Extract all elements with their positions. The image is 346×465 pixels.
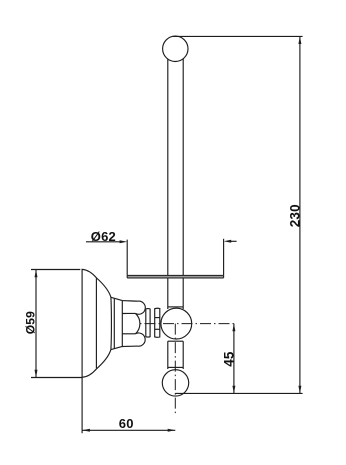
collar nut facet lower bbox=[155, 328, 160, 330]
dimension 60 line bbox=[82, 429, 175, 431]
wall flange bell dome bbox=[82, 269, 111, 377]
tulip neck top edge bbox=[111, 297, 138, 301]
top ball finial bbox=[163, 36, 188, 61]
arrow 60 left bbox=[82, 429, 90, 432]
arrow 230 top bbox=[298, 36, 301, 44]
dimension 062 tail right bbox=[231, 240, 237, 242]
dimension 062 leader left bbox=[86, 241, 121, 243]
dimension 062 extension right bbox=[223, 239, 225, 275]
dimension line 45 bbox=[233, 324, 235, 394]
dimension 059 extension bottom bbox=[31, 377, 82, 379]
rod seam above ball joint bbox=[168, 306, 183, 308]
centerline vertical below ball joint bbox=[174, 324, 176, 415]
svg-text:230: 230 bbox=[287, 204, 302, 227]
extension line top (230) bbox=[173, 35, 303, 37]
collar nut facet upper bbox=[155, 317, 160, 319]
tulip notch lower bbox=[122, 333, 135, 335]
arrow 60 right bbox=[168, 429, 176, 432]
arrow 45 top bbox=[232, 324, 235, 332]
arrow 059 bottom bbox=[35, 370, 38, 378]
arrow 45 bottom bbox=[232, 386, 235, 394]
svg-text:45: 45 bbox=[222, 351, 237, 367]
svg-text:Ø62: Ø62 bbox=[91, 229, 116, 244]
dimension line 230 bbox=[299, 36, 301, 393]
rod seam below ball joint bbox=[168, 340, 183, 342]
svg-text:60: 60 bbox=[119, 416, 134, 431]
rod end seam bbox=[168, 366, 183, 368]
tulip scallop arc top bbox=[135, 301, 145, 314]
flange inner rim line bbox=[95, 278, 97, 368]
dimension 062 extension left bbox=[126, 240, 128, 276]
dimension 60 extension left bbox=[81, 377, 83, 433]
flange mouth rim line bbox=[113, 299, 115, 349]
arrow 059 top bbox=[35, 270, 38, 278]
extension line bottom (230/45) bbox=[175, 392, 302, 394]
ball joint bbox=[161, 308, 192, 339]
centerline horizontal through ball joint bbox=[140, 323, 234, 325]
collar nut bbox=[155, 308, 160, 337]
arrow 062 right bbox=[224, 240, 232, 243]
arrow 230 bottom bbox=[298, 386, 301, 394]
node roll-plate bbox=[127, 275, 223, 277]
tulip scallop arc bottom bbox=[135, 333, 145, 346]
tulip neck left line bbox=[121, 301, 123, 347]
tulip scallop arc middle bbox=[135, 313, 140, 333]
dimension 059 extension top bbox=[31, 269, 80, 271]
bottom ball end bbox=[162, 370, 188, 396]
svg-text:Ø59: Ø59 bbox=[24, 311, 38, 334]
tulip neck bottom edge bbox=[111, 346, 138, 350]
arrow 062 left bbox=[120, 240, 128, 243]
collar disc bbox=[146, 309, 150, 338]
dimension 059 line bbox=[35, 270, 37, 378]
tulip notch upper bbox=[122, 312, 135, 314]
wire rod vertical lines bbox=[167, 54, 169, 309]
